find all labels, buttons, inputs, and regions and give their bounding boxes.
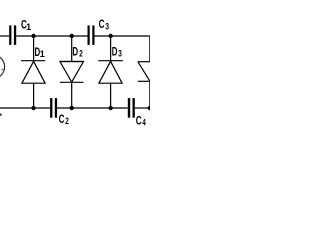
svg-text:1: 1 (40, 49, 45, 59)
svg-text:D: D (72, 45, 78, 59)
svg-text:4: 4 (142, 117, 146, 127)
svg-text:D: D (112, 44, 118, 58)
svg-text:3: 3 (118, 49, 122, 59)
svg-text:1: 1 (26, 22, 31, 32)
svg-text:2: 2 (65, 116, 69, 126)
svg-text:2: 2 (79, 48, 83, 58)
svg-text:C: C (136, 113, 142, 127)
svg-text:C: C (99, 17, 105, 31)
svg-text:C: C (59, 112, 65, 126)
svg-text:3: 3 (105, 22, 109, 32)
